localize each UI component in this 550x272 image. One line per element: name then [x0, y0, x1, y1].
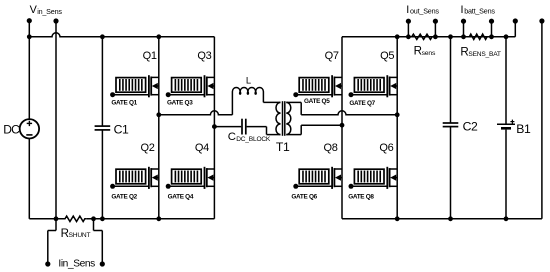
- wire secondary top to Q5/Q6 midpoint (hop over Q7/Q8 leg): [286, 102, 397, 114]
- wire Q7/Q8 bridge leg: [341, 37, 343, 219]
- node Iout_Sens terminal 1: [406, 19, 411, 40]
- wire bridge midpoint A to inductor (hop over Q3/Q4 leg): [159, 92, 233, 115]
- junction bottom bus / Q6 leg: [395, 216, 400, 221]
- transistor Q8: [324, 142, 343, 189]
- svg-text:C1: C1: [114, 123, 129, 137]
- wire Iin_Sens left tap: [45, 219, 56, 267]
- node battery negative sense terminal: [539, 18, 544, 218]
- svg-text:C2: C2: [463, 119, 478, 133]
- battery B1: [497, 37, 531, 219]
- transistor Q2: [141, 142, 159, 189]
- node Iout_Sens terminal 2: [433, 19, 438, 40]
- transistor Q6: [379, 142, 397, 189]
- DC source V1: [3, 21, 39, 219]
- transformer T1 core: [283, 101, 285, 136]
- transistor Q1: [143, 50, 159, 97]
- node Vin_Sens terminal 2: [53, 18, 58, 218]
- inductor L: [232, 74, 263, 94]
- node Ibatt_Sens terminal 2: [489, 19, 494, 40]
- wire bottom bus (left bridge): [29, 218, 214, 220]
- junction top bus / C1: [100, 34, 105, 39]
- wire bottom bus (right bridge): [342, 218, 542, 220]
- resistor R_SHUNT: [61, 216, 91, 240]
- junction bottom bus / Q2 leg: [156, 216, 161, 221]
- capacitor C1: [95, 37, 129, 219]
- junction Q3/Q4 midpoint node: [212, 124, 217, 129]
- svg-text:batt_Sens: batt_Sens: [464, 7, 495, 16]
- svg-text:B1: B1: [516, 122, 531, 136]
- resistor Rsens: [410, 34, 436, 58]
- junction top bus / DC column: [27, 34, 32, 39]
- wire Q1/Q2 bridge leg: [158, 37, 160, 219]
- svg-text:GATE Q1: GATE Q1: [111, 100, 137, 107]
- transformer T1 secondary winding: [276, 102, 291, 154]
- svg-text:Q3: Q3: [197, 50, 211, 62]
- junction Q1/Q2 midpoint node: [156, 112, 161, 117]
- svg-text:DC_BLOCK: DC_BLOCK: [236, 136, 271, 143]
- capacitor C_DC_BLOCK: [228, 119, 271, 144]
- resistor R_SENS_BAT: [460, 34, 501, 58]
- svg-text:GATE Q5: GATE Q5: [304, 98, 330, 105]
- svg-text:in_Sens: in_Sens: [37, 7, 62, 16]
- gate resistor GATE Q3: [166, 78, 205, 107]
- transistor Q7: [325, 50, 342, 97]
- junction top bus / Q5 leg: [395, 34, 400, 39]
- junction top bus / Q1 leg: [156, 34, 161, 39]
- svg-text:C: C: [228, 131, 236, 143]
- svg-text:sens: sens: [422, 50, 436, 57]
- transistor Q3: [197, 50, 214, 97]
- wire Q3/Q4 midpoint to Cdc_block: [214, 126, 241, 128]
- svg-text:GATE Q8: GATE Q8: [348, 194, 374, 201]
- wire Q3/Q4 bridge leg: [213, 37, 215, 219]
- junction bottom bus / Vin sense wire: [54, 216, 59, 221]
- svg-text:out_Sens: out_Sens: [410, 7, 439, 16]
- svg-text:L: L: [246, 74, 251, 85]
- wire top bus (left bridge) with hop over Vin sense wire: [29, 33, 214, 37]
- gate resistor GATE Q1: [110, 78, 149, 107]
- label Vin_Sens: [30, 4, 63, 16]
- svg-text:GATE Q3: GATE Q3: [167, 100, 193, 107]
- junction bottom bus / C2: [448, 216, 453, 221]
- junction Q7/Q8 midpoint node: [340, 123, 345, 128]
- junction bottom bus / shunt right tap: [91, 216, 96, 221]
- wire inductor to transformer primary top: [263, 92, 280, 103]
- wire Q5/Q6 bridge leg: [396, 37, 398, 219]
- junction bottom bus / C1: [100, 216, 105, 221]
- svg-text:I: I: [461, 4, 464, 16]
- svg-text:GATE Q2: GATE Q2: [111, 194, 137, 201]
- svg-text:Q5: Q5: [380, 50, 394, 62]
- node battery sense stub terminal: [513, 18, 518, 23]
- wire top bus (right bridge): [342, 21, 515, 37]
- junction Q5/Q6 midpoint node: [395, 112, 400, 117]
- wire secondary bottom to Q7/Q8 midpoint: [286, 125, 342, 134]
- svg-text:DC: DC: [3, 122, 20, 136]
- wire Cdc_block to transformer primary bottom: [247, 127, 281, 135]
- gate resistor GATE Q2: [110, 169, 149, 200]
- svg-text:SENS_BAT: SENS_BAT: [468, 51, 501, 58]
- svg-text:GATE Q4: GATE Q4: [168, 194, 194, 201]
- gate resistor GATE Q7: [349, 78, 388, 107]
- svg-text:I: I: [406, 4, 409, 16]
- svg-text:Q1: Q1: [143, 50, 157, 62]
- gate resistor GATE Q5: [293, 78, 332, 105]
- svg-text:Q8: Q8: [324, 142, 338, 154]
- svg-text:Q6: Q6: [379, 142, 393, 154]
- svg-text:Q2: Q2: [141, 142, 155, 154]
- gate resistor GATE Q6: [291, 169, 332, 200]
- node Vin_Sens terminal 1: [27, 18, 32, 23]
- gate resistor GATE Q8: [348, 169, 387, 200]
- label Iout_Sens: [406, 4, 439, 16]
- label Iin_Sens: [58, 258, 95, 269]
- transistor Q5: [380, 50, 397, 97]
- svg-text:Iin_Sens: Iin_Sens: [58, 258, 95, 269]
- node Ibatt_Sens terminal 1: [461, 19, 466, 40]
- svg-text:Q7: Q7: [325, 50, 339, 62]
- junction bottom bus / B1: [504, 216, 509, 221]
- transistor Q4: [195, 142, 215, 189]
- svg-text:T1: T1: [276, 140, 290, 154]
- junction top bus / C2: [448, 34, 453, 39]
- svg-text:GATE Q7: GATE Q7: [349, 100, 375, 107]
- transformer T1 primary winding: [276, 102, 281, 134]
- gate resistor GATE Q4: [166, 169, 205, 200]
- svg-text:GATE Q6: GATE Q6: [291, 194, 317, 201]
- capacitor C2: [443, 37, 478, 219]
- wire Iin_Sens right tap: [94, 219, 105, 267]
- label Ibatt_Sens: [461, 4, 496, 16]
- junction top bus / B1: [504, 34, 509, 39]
- svg-text:SHUNT: SHUNT: [69, 232, 91, 239]
- svg-text:Q4: Q4: [195, 142, 209, 154]
